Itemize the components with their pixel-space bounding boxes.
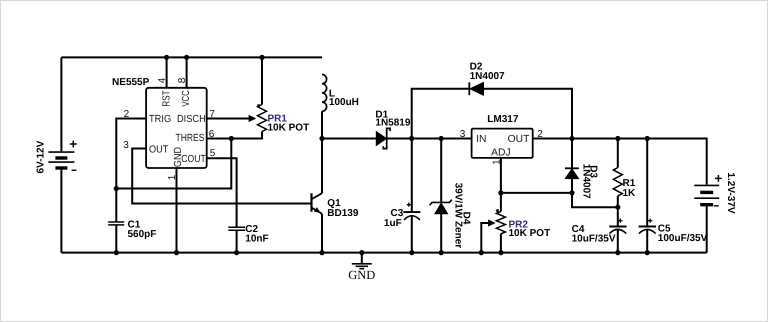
wire D2 left riser xyxy=(412,89,470,139)
svg-text:BD139: BD139 xyxy=(327,208,359,219)
capacitor C4 10uF/35V plates xyxy=(609,227,626,234)
svg-text:6: 6 xyxy=(209,129,215,140)
wire C5 top drop xyxy=(646,139,648,227)
battery BT2 plus sign xyxy=(715,175,722,182)
battery BT1 minus sign xyxy=(72,169,77,171)
node C5 top xyxy=(645,136,650,141)
wire RST pin 4 drop xyxy=(166,57,168,87)
node rail C3 xyxy=(409,250,414,255)
svg-text:3: 3 xyxy=(123,140,129,151)
wire COUT pin 5 to C2 top xyxy=(207,158,237,227)
capacitor C1 560pF plates xyxy=(108,222,124,225)
node rail PR2 wiper xyxy=(479,250,484,255)
svg-text:IN: IN xyxy=(476,134,486,145)
wire bottom ground rail xyxy=(61,252,706,254)
diode D4 39V/1W Zener symbol xyxy=(430,200,452,214)
node rail C4 xyxy=(615,250,620,255)
wire left battery negative to bottom rail xyxy=(60,170,62,253)
svg-text:39V/1W Zener: 39V/1W Zener xyxy=(453,183,464,249)
svg-text:LM317: LM317 xyxy=(487,114,519,125)
potentiometer PR1 wiper arrow xyxy=(249,115,257,122)
svg-text:1.2V-37V: 1.2V-37V xyxy=(725,172,736,213)
svg-text:100uF/35V: 100uF/35V xyxy=(658,233,708,244)
svg-text:GND: GND xyxy=(348,268,375,282)
svg-text:1N5819: 1N5819 xyxy=(375,118,410,129)
svg-text:1: 1 xyxy=(492,159,503,165)
capacitor C2 10nF plates xyxy=(228,227,245,230)
wire TRIG link to THRES xyxy=(116,139,231,189)
wire D3 cathode riser xyxy=(571,139,573,169)
svg-text:OUT: OUT xyxy=(508,134,530,145)
svg-text:RST: RST xyxy=(161,90,172,107)
node rail PR2 bottom xyxy=(498,250,503,255)
diode D2 1N4007 symbol xyxy=(469,82,483,95)
wire VCC pin 8 drop xyxy=(186,57,188,87)
svg-text:COUT: COUT xyxy=(181,154,206,165)
node TRIG link / C1 top xyxy=(114,186,119,191)
node rail D4 xyxy=(439,250,444,255)
wire right battery negative to ground rail xyxy=(706,205,708,252)
svg-text:3: 3 xyxy=(460,129,466,140)
wire OUT pin 3 to Q1 base xyxy=(132,149,310,204)
wire C4 top stub xyxy=(617,207,619,226)
node top rail pin8 xyxy=(184,55,189,60)
svg-text:VCC: VCC xyxy=(181,90,192,107)
wire PR1 top drop xyxy=(261,57,263,104)
wire DISCH pin 7 to PR1 wiper xyxy=(207,118,249,120)
node rail C5 xyxy=(645,250,650,255)
wire top rail from battery + to L xyxy=(61,56,322,58)
node rail Q1 emitter xyxy=(319,250,324,255)
wire D4 cathode drop xyxy=(440,139,442,203)
svg-text:OUT: OUT xyxy=(149,144,169,155)
battery BT2 minus sign xyxy=(714,205,719,207)
svg-text:10nF: 10nF xyxy=(245,233,268,244)
inductor L 100uH coil xyxy=(322,75,327,112)
wire node to D1 anode xyxy=(322,138,376,140)
ground symbol xyxy=(352,264,372,269)
node top rail pin4 xyxy=(164,55,169,60)
wire PR2 top drop xyxy=(500,193,502,212)
capacitor C5 100uF/35V plates xyxy=(639,227,656,234)
battery BT1 6V-12V plates xyxy=(48,152,74,168)
svg-text:ADJ: ADJ xyxy=(491,148,510,159)
capacitor C3 plus sign xyxy=(407,203,411,207)
wire PR2 bottom to ground rail xyxy=(500,234,502,253)
node ADJ junction xyxy=(498,190,503,195)
op-amp U1 NE555P body xyxy=(146,88,207,168)
wire PR2 wiper to ground rail xyxy=(481,223,488,253)
node rail pin1 xyxy=(174,250,179,255)
node D2 left / C3 top xyxy=(409,136,414,141)
wire ADJ node to R1 bottom link xyxy=(572,193,618,207)
svg-text:1: 1 xyxy=(167,174,178,180)
wire GND symbol stub xyxy=(361,253,363,264)
op-amp U2 LM317 body xyxy=(472,129,533,158)
svg-text:10K POT: 10K POT xyxy=(509,228,551,239)
svg-text:100uH: 100uH xyxy=(329,97,359,108)
wire C2 bottom to ground rail xyxy=(236,230,238,252)
node R1 top xyxy=(615,136,620,141)
node R1 bottom / C4 top xyxy=(615,205,620,210)
svg-text:8: 8 xyxy=(177,77,188,83)
resistor PR2 zigzag xyxy=(496,212,505,234)
wire C3 bottom to ground rail xyxy=(411,216,413,253)
wire L bottom to node xyxy=(321,111,323,138)
capacitor C4 plus sign xyxy=(618,219,622,223)
wire C3 top drop xyxy=(411,139,413,213)
wire TRIG pin 2 to C1 top xyxy=(116,119,146,223)
wire R1 top drop xyxy=(617,139,619,168)
transistor Q1 BD139 symbol xyxy=(312,193,323,214)
svg-text:5: 5 xyxy=(210,148,216,159)
wire D4 anode to ground rail xyxy=(440,214,442,253)
potentiometer PR2 wiper arrow xyxy=(488,219,496,226)
svg-text:NE555P: NE555P xyxy=(112,77,150,88)
svg-text:2: 2 xyxy=(124,109,130,120)
wire D2 anode to OUT node xyxy=(484,89,573,139)
svg-text:1K: 1K xyxy=(623,188,637,199)
capacitor C3 1uF plates xyxy=(403,212,420,220)
svg-text:THRES: THRES xyxy=(176,133,205,144)
resistor R1 zigzag xyxy=(613,168,622,196)
wire ADJ to D3 anode xyxy=(501,192,572,194)
diode D3 1N4007 symbol xyxy=(565,168,579,178)
wire R1 bottom stub xyxy=(617,196,619,207)
svg-text:1N4007: 1N4007 xyxy=(470,71,505,82)
wire Q1 collector riser xyxy=(321,139,323,194)
battery BT1 plus sign xyxy=(70,141,77,148)
node THRES link xyxy=(229,136,234,141)
wire LM317 OUT line to right battery xyxy=(533,139,707,185)
svg-text:10K POT: 10K POT xyxy=(268,122,310,133)
svg-text:1N4007: 1N4007 xyxy=(580,164,591,199)
node top rail PR1 xyxy=(259,55,264,60)
svg-text:GND: GND xyxy=(173,147,184,167)
svg-text:560pF: 560pF xyxy=(128,229,157,240)
wire left battery positive drop xyxy=(60,57,62,151)
wire THRES pin 6 to PR1 bottom xyxy=(207,132,262,139)
node rail C2 xyxy=(234,250,239,255)
node rail C1 xyxy=(114,250,119,255)
potentiometer PR1 marker dot xyxy=(257,104,260,107)
svg-text:2: 2 xyxy=(537,129,543,140)
node rail GND symbol xyxy=(359,250,364,255)
capacitor C5 plus sign xyxy=(648,219,652,223)
node L bottom / Q1 collector / D1 anode xyxy=(319,136,324,141)
node D3 anode xyxy=(569,190,574,195)
svg-text:7: 7 xyxy=(209,109,215,120)
svg-text:6V-12V: 6V-12V xyxy=(35,140,46,173)
wire Q1 emitter to ground rail xyxy=(321,214,323,253)
wire GND pin 1 to ground rail xyxy=(176,168,178,253)
svg-text:4: 4 xyxy=(157,77,168,83)
svg-text:TRIG: TRIG xyxy=(149,114,171,125)
wire LM317 ADJ drop xyxy=(500,158,502,193)
wire C4 bottom to ground rail xyxy=(617,230,619,253)
wire C5 bottom to ground rail xyxy=(646,230,648,253)
wire C1 bottom to ground rail xyxy=(115,225,117,253)
node D2 right on OUT line xyxy=(569,136,574,141)
node D4 top xyxy=(439,136,444,141)
wire D3 anode to node xyxy=(571,179,573,193)
potentiometer PR2 marker dot xyxy=(496,209,499,212)
resistor PR1 zigzag xyxy=(258,105,267,132)
wire D1 cathode to LM317 IN xyxy=(387,138,472,140)
svg-text:DISCH: DISCH xyxy=(177,114,206,125)
diode D1 1N5819 symbol xyxy=(376,128,390,148)
battery BT2 1.2V-37V plates xyxy=(694,185,719,204)
svg-text:1uF: 1uF xyxy=(384,218,402,229)
svg-text:10uF/35V: 10uF/35V xyxy=(572,233,616,244)
